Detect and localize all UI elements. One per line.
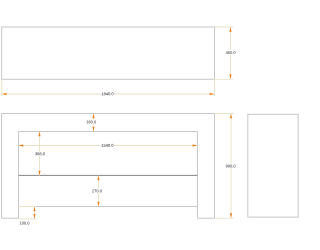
dim 450.0 extension line bottom xyxy=(215,78,234,80)
dim 160.0 line xyxy=(93,114,95,132)
dim 100.0 extension line bottom xyxy=(19,218,37,220)
dim 1840.0 arrow left xyxy=(2,93,7,95)
front view drawer divider xyxy=(19,174,198,176)
dim 900.0 arrow up xyxy=(230,114,232,119)
dim 100.0 label xyxy=(20,222,30,225)
dim 270.0 arrow down xyxy=(97,202,99,207)
dim 100.0 arrow up xyxy=(33,207,35,212)
dim 450.0 line xyxy=(230,27,232,79)
front view top panel line xyxy=(2,113,215,115)
dim 1840.0 label xyxy=(101,92,114,96)
dim 100.0 line xyxy=(34,207,36,220)
dim 160.0 arrow down xyxy=(92,127,94,132)
dim 270.0 line xyxy=(98,176,100,207)
dim 388.0 arrow up xyxy=(38,132,40,137)
front view drawer box top xyxy=(19,131,198,133)
dim 1540.0 arrow right xyxy=(193,144,198,146)
dim 160.0 arrow up xyxy=(92,114,94,119)
front view drawer box left xyxy=(18,132,20,219)
front view drawer box right xyxy=(196,132,198,219)
dim 1840.0 arrow right xyxy=(210,93,215,95)
dim 270.0 label xyxy=(92,189,103,193)
dim 1540.0 label xyxy=(101,143,114,147)
dim 900.0 line xyxy=(230,114,232,219)
dim 1540.0 arrow left xyxy=(19,144,24,146)
front view bottom shelf line xyxy=(19,206,198,208)
dim 1840.0 extension line right xyxy=(214,79,216,96)
front view left side panel xyxy=(2,113,19,218)
dim 900.0 label xyxy=(225,164,236,168)
dim 450.0 arrow up xyxy=(229,27,231,32)
dim 388.0 label xyxy=(35,152,46,156)
dim 450.0 extension line top xyxy=(215,26,234,28)
dim 450.0 label xyxy=(225,50,236,54)
front view right side panel xyxy=(197,113,214,218)
dim 100.0 arrow down xyxy=(33,214,35,219)
dim 1840.0 line xyxy=(2,93,215,95)
dim 100.0 extension line top xyxy=(19,206,37,208)
dim 900.0 extension line top xyxy=(215,113,234,115)
dim 1540.0 line xyxy=(19,145,198,147)
dim 900.0 extension line bottom xyxy=(215,217,234,219)
dim 270.0 arrow up xyxy=(97,176,99,181)
dim 1840.0 extension line left xyxy=(1,79,3,96)
dim 388.0 line xyxy=(39,132,41,176)
dim 388.0 arrow down xyxy=(38,171,40,176)
dim 450.0 arrow down xyxy=(229,74,231,79)
side view rectangle xyxy=(248,114,298,217)
dim 160.0 label xyxy=(86,120,97,124)
top view rectangle xyxy=(2,27,215,79)
dim 900.0 arrow down xyxy=(230,213,232,218)
